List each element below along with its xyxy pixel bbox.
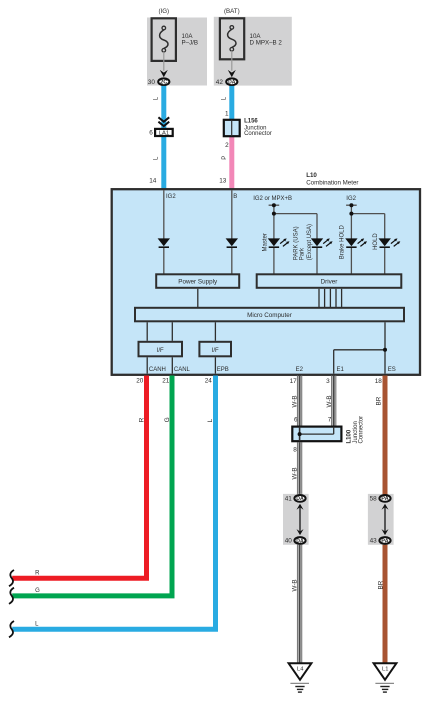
svg-text:PA: PA <box>381 538 389 544</box>
svg-text:R: R <box>35 571 40 577</box>
svg-text:40: 40 <box>285 538 293 545</box>
svg-text:L: L <box>35 621 39 627</box>
svg-text:Brake HOLD: Brake HOLD <box>340 225 346 260</box>
svg-text:7: 7 <box>328 416 332 423</box>
svg-text:13: 13 <box>219 177 227 184</box>
svg-text:EPB: EPB <box>217 367 229 373</box>
svg-text:L10: L10 <box>306 172 317 179</box>
svg-text:Master: Master <box>262 233 268 251</box>
svg-text:R: R <box>139 417 146 422</box>
svg-text:DA: DA <box>296 538 304 544</box>
svg-text:IG2: IG2 <box>346 196 356 202</box>
svg-text:42: 42 <box>216 79 224 86</box>
svg-text:(IG): (IG) <box>158 8 169 15</box>
svg-text:Connector: Connector <box>244 131 272 137</box>
svg-text:P–J/B: P–J/B <box>182 39 199 46</box>
svg-text:D MPX–B 2: D MPX–B 2 <box>250 39 283 46</box>
svg-text:30: 30 <box>148 79 156 86</box>
svg-text:L: L <box>222 96 228 100</box>
svg-text:I/F: I/F <box>157 348 164 354</box>
svg-text:L: L <box>154 156 160 160</box>
svg-text:LA1: LA1 <box>159 131 169 137</box>
svg-text:PA: PA <box>381 496 389 502</box>
svg-text:CANH: CANH <box>149 367 166 373</box>
svg-text:14: 14 <box>149 177 157 184</box>
svg-text:ES: ES <box>388 367 396 373</box>
svg-text:6: 6 <box>149 129 153 136</box>
svg-text:(Except USA): (Except USA) <box>307 224 313 260</box>
svg-text:IG2: IG2 <box>166 194 176 200</box>
svg-text:21: 21 <box>162 377 170 384</box>
svg-text:DA: DA <box>296 496 304 502</box>
svg-text:Connector: Connector <box>359 416 365 444</box>
svg-text:Micro Computer: Micro Computer <box>247 312 292 319</box>
svg-text:E1: E1 <box>337 367 345 373</box>
svg-text:1: 1 <box>225 111 229 118</box>
svg-text:17: 17 <box>290 378 298 385</box>
svg-text:58: 58 <box>370 496 378 503</box>
svg-text:BR: BR <box>378 580 385 589</box>
svg-text:8: 8 <box>293 447 297 454</box>
svg-text:Combination Meter: Combination Meter <box>306 180 358 187</box>
svg-text:BR: BR <box>376 396 383 405</box>
svg-text:G: G <box>164 417 171 422</box>
svg-text:43: 43 <box>370 538 378 545</box>
svg-text:L4: L4 <box>297 666 304 672</box>
svg-text:P: P <box>222 156 228 160</box>
svg-text:2: 2 <box>225 142 229 149</box>
svg-text:W-B: W-B <box>291 579 298 591</box>
svg-text:Driver: Driver <box>321 279 338 286</box>
svg-text:B: B <box>233 194 237 200</box>
svg-text:Park: Park <box>299 247 305 260</box>
svg-text:24: 24 <box>205 377 213 384</box>
svg-text:G: G <box>35 588 40 594</box>
svg-text:I/F: I/F <box>212 348 219 354</box>
svg-text:2C: 2C <box>160 80 168 86</box>
svg-text:W-B: W-B <box>291 467 298 479</box>
svg-text:Power Supply: Power Supply <box>178 279 218 286</box>
svg-text:L156: L156 <box>244 118 258 124</box>
svg-text:W-B: W-B <box>326 395 333 407</box>
svg-text:L1: L1 <box>382 666 388 672</box>
svg-text:HOLD: HOLD <box>373 233 379 250</box>
svg-text:L: L <box>154 96 160 100</box>
svg-text:20: 20 <box>136 377 144 384</box>
svg-text:CANL: CANL <box>174 367 191 373</box>
svg-text:6: 6 <box>294 416 298 423</box>
svg-text:W-B: W-B <box>291 395 298 407</box>
svg-text:L: L <box>207 418 214 422</box>
svg-text:IG2 or MPX+B: IG2 or MPX+B <box>253 196 292 202</box>
svg-text:L100: L100 <box>347 429 353 443</box>
svg-text:DA: DA <box>228 80 236 86</box>
svg-text:(BAT): (BAT) <box>224 8 240 15</box>
svg-text:18: 18 <box>375 378 383 385</box>
svg-text:41: 41 <box>285 496 293 503</box>
svg-text:E2: E2 <box>296 367 304 373</box>
svg-text:3: 3 <box>326 378 330 385</box>
